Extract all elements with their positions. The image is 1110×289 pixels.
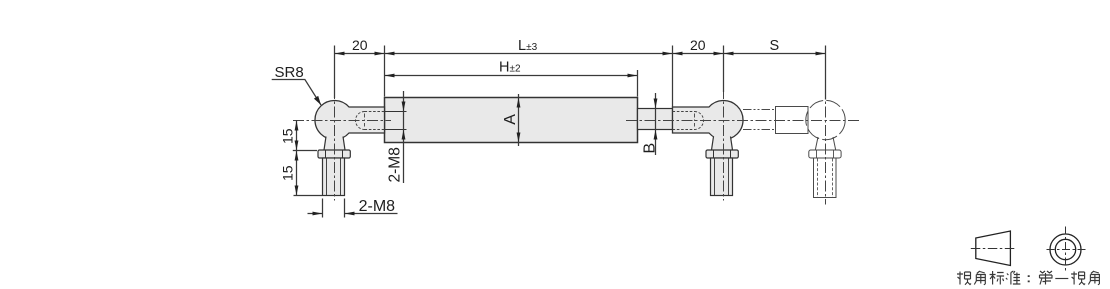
frustum centerline [971,248,1016,250]
svg-text:2-M8: 2-M8 [359,198,396,215]
extension line at tube left edge [384,46,386,97]
svg-text:A: A [502,114,519,125]
left joint vertical centerline [334,88,336,201]
dimension line L±3 [385,53,673,55]
left joint neck [324,137,345,151]
准 [1006,271,1021,285]
SR8 leader arrowhead [314,96,321,105]
视 [957,272,971,285]
phantom ball [806,100,845,139]
extension line at right ball center [723,46,725,93]
right joint hex nut [706,150,738,158]
right joint vertical centerline [723,88,725,201]
dimension line 20 (right) [673,53,724,55]
dimension line 20 (left) [335,53,385,55]
2-M8 thread dimension line at tube end [403,91,405,183]
phantom neck [815,137,835,150]
extension line at nut top [293,150,317,152]
B diameter dimension (rod) [655,93,657,155]
phantom vertical centerline [825,88,827,205]
right ball joint body (socket sleeve + ball) [673,101,744,140]
right horizontal centerline [626,120,861,122]
extension line at rod end [672,46,674,108]
tube (cylinder body) [385,98,638,143]
svg-text:L±3: L±3 [518,38,538,54]
phantom rod extension lines [743,110,776,130]
一 [1055,278,1068,280]
dimension line S (stroke) [724,53,826,55]
svg-text:15: 15 [280,165,296,181]
角 [974,271,985,285]
circle symbol (two concentric circles) [1050,234,1081,265]
right joint neck [712,137,733,151]
svg-text:2-M8: 2-M8 [387,147,404,182]
dimension line with outside arrows [308,213,398,215]
svg-text:20: 20 [352,37,368,53]
svg-text:H±2: H±2 [499,60,521,76]
extension lines at stud edges [323,199,345,218]
A diameter dimension (inside tube) [518,94,520,146]
left joint hex nut [318,150,350,158]
piston rod [638,109,673,130]
left threaded stud 2-M8 [323,158,345,196]
extension line at left ball center [334,46,336,99]
svg-text:15: 15 [280,128,296,144]
small vertical centerline tick in right socket [694,114,696,127]
svg-text:B: B [642,143,659,154]
tube end thread lines (2-M8) [385,112,407,130]
extension line at stud bottom [294,195,323,197]
svg-text:SR8: SR8 [275,64,304,81]
left ball joint body (ball + socket sleeve) [315,101,385,140]
caption 视角标准：第一视角 (drawn as strokes) [957,271,1099,285]
phantom threaded stud [814,158,837,198]
small vertical centerline tick in left socket [364,114,366,127]
phantom hex nut [809,150,841,158]
视 [1071,272,1085,285]
标 [990,271,1005,285]
circle symbol horizontal centerline [1047,249,1086,251]
right threaded stud 2-M8 [711,158,733,196]
svg-text:20: 20 [690,37,706,53]
right socket hidden thread (dashed) [673,112,695,130]
角 [1088,271,1099,285]
phantom socket sleeve [776,107,809,134]
第 [1040,271,1053,285]
svg-text:S: S [770,38,780,54]
left horizontal centerline [293,120,391,122]
circle symbol vertical centerline [1065,227,1067,273]
frustum symbol [976,231,1011,266]
extension line at phantom ball center [825,46,827,100]
left socket hidden thread (dashed) [365,112,385,130]
： [1028,275,1030,282]
H±2 dimension [637,70,639,97]
dimension line 15/15 [296,120,298,196]
SR8 leader line [272,80,321,106]
